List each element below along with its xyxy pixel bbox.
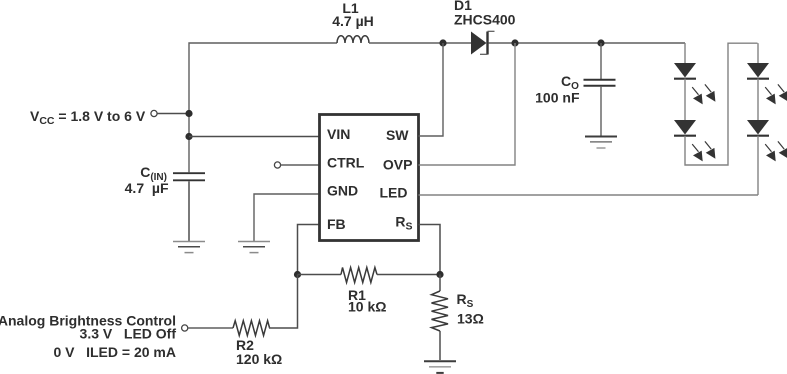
ground CO — [585, 137, 617, 149]
IC U1 LED driver box — [320, 115, 419, 241]
terminal CTRL — [274, 162, 280, 168]
node RS junction — [436, 271, 443, 278]
wire D1 to LED string 1 — [489, 42, 686, 44]
inductor L1 — [337, 36, 369, 43]
ground CIN — [173, 242, 205, 253]
wire L1 to D1 — [369, 42, 471, 44]
svg-text:120 kΩ: 120 kΩ — [236, 351, 282, 367]
LED D3 — [674, 120, 696, 136]
wire CO top — [600, 43, 602, 80]
svg-text:CTRL: CTRL — [327, 154, 365, 170]
wire SW riser — [419, 43, 444, 136]
wire VIN — [189, 136, 320, 138]
wire RS top lead — [439, 275, 441, 292]
svg-text:RS: RS — [457, 291, 474, 310]
svg-text:13Ω: 13Ω — [457, 311, 484, 327]
node VIN junction — [185, 133, 192, 140]
node FB junction — [294, 271, 301, 278]
node VCC junction — [185, 110, 192, 117]
LED D5 — [747, 120, 769, 136]
resistor R2 — [233, 321, 270, 336]
wire string1 middle — [684, 79, 686, 121]
wire R2 right lead riser — [269, 275, 298, 329]
svg-text:SW: SW — [386, 127, 409, 143]
LED D4 — [747, 63, 769, 79]
wire R2 left lead — [188, 327, 233, 329]
wire top rail left — [189, 43, 337, 172]
wire RS pin — [419, 225, 441, 275]
wire LED string1 top — [684, 43, 686, 63]
svg-text:GND: GND — [327, 183, 358, 199]
svg-text:FB: FB — [327, 216, 346, 232]
wire CIN to ground — [188, 181, 190, 241]
svg-text:VCC = 1.8 V to 6 V: VCC = 1.8 V to 6 V — [30, 108, 146, 127]
LED D2 — [674, 63, 696, 79]
emission arrows D3 — [692, 141, 715, 161]
wire CTRL — [281, 164, 320, 166]
wire LED pin — [419, 194, 759, 196]
svg-text:LED: LED — [380, 185, 408, 201]
capacitor CO — [584, 80, 616, 86]
wire RS bottom lead — [439, 331, 441, 360]
wire R1 left lead — [298, 274, 342, 276]
ground GND pin — [238, 242, 270, 253]
emission arrows D4 — [765, 84, 787, 104]
wire FB — [298, 225, 320, 275]
svg-text:10 kΩ: 10 kΩ — [348, 299, 386, 315]
wire string2 middle — [757, 79, 759, 121]
svg-text:ZHCS400: ZHCS400 — [454, 12, 516, 28]
wire VCC to vertical — [157, 113, 189, 115]
wire string2 bottom — [757, 136, 759, 195]
terminal brightness control — [182, 325, 188, 331]
svg-text:OVP: OVP — [383, 157, 413, 173]
node OVP junction — [511, 39, 518, 46]
node CO junction — [597, 39, 604, 46]
emission arrows D5 — [765, 141, 787, 161]
wire GND pin to ground — [254, 194, 320, 241]
capacitor CIN — [173, 173, 205, 180]
svg-text:100 nF: 100 nF — [535, 90, 580, 106]
node SW junction — [439, 39, 446, 46]
diode D1 — [471, 31, 495, 54]
wire R1 right lead — [377, 274, 440, 276]
wire LED string2 top — [757, 43, 759, 63]
wire OVP riser — [419, 43, 516, 165]
terminal VCC — [151, 110, 157, 116]
wire CO to ground — [600, 87, 602, 136]
emission arrows D2 — [692, 84, 715, 104]
wire string1 bottom riser to string2 — [685, 43, 758, 165]
resistor RS — [432, 291, 449, 331]
svg-text:3.3 V LED Off: 3.3 V LED Off — [80, 326, 177, 342]
svg-text:VIN: VIN — [327, 126, 350, 142]
ground RS — [424, 361, 456, 373]
svg-text:0 V ILED = 20 mA: 0 V ILED = 20 mA — [53, 344, 176, 360]
svg-text:4.7 µF: 4.7 µF — [125, 180, 169, 196]
svg-text:4.7 µH: 4.7 µH — [332, 13, 374, 29]
resistor R1 — [341, 268, 377, 283]
